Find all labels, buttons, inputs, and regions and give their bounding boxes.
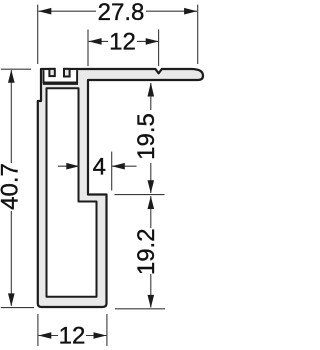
extension line 40.7 bottom — [1, 307, 34, 309]
dimension 12 bottom arrow left — [38, 332, 51, 339]
top slot cavity outline — [44, 70, 78, 82]
extension line 19.5/19.2 junction — [115, 194, 165, 196]
dimension 27.8 line right — [146, 10, 197, 12]
dimension 19.5 arrow up — [148, 83, 155, 97]
dimension 4 arrow left — [66, 163, 79, 170]
profile body outline — [38, 69, 203, 307]
extension line 12 bottom right — [106, 314, 108, 346]
dimension 19.2 line upper — [150, 196, 152, 228]
svg-text:40.7: 40.7 — [0, 163, 24, 210]
extension line 27.8 left — [37, 5, 39, 64]
dimension 12 bottom line left — [38, 335, 58, 337]
dimension 19.2 arrow up — [148, 196, 155, 209]
dimension 12 top arrow right — [146, 38, 159, 45]
extension line 12 bottom left — [37, 314, 39, 346]
dimension 40.7 line lower — [10, 211, 12, 306]
dimension 27.8 arrow right — [184, 8, 197, 15]
svg-text:12: 12 — [59, 322, 86, 349]
top slot opening — [55, 66, 63, 75]
extension line 27.8 right — [197, 5, 199, 64]
dimension 19.5 line upper — [150, 83, 152, 110]
dimension 12 bottom arrow right — [94, 332, 107, 339]
dimension 19.2 arrow down — [148, 295, 155, 308]
top slot right lip — [64, 69, 70, 77]
extension line 40.7 top — [1, 68, 31, 70]
dimension 4 line left — [58, 165, 79, 167]
dimension 12 bottom line right — [86, 335, 107, 337]
dimension 12 top arrow left — [89, 38, 102, 45]
top slot left lip — [49, 69, 54, 76]
svg-text:4: 4 — [93, 153, 106, 180]
svg-text:19.5: 19.5 — [133, 113, 160, 160]
extension line 19.2 bottom — [115, 308, 165, 310]
dimension 40.7 arrow down — [8, 293, 15, 306]
extension line 4 — [111, 152, 113, 191]
extension line 12 top right — [158, 30, 160, 67]
dimension 4 line right — [112, 165, 137, 167]
dimension 4 arrow right — [112, 163, 125, 170]
dimension 19.5 arrow down — [148, 180, 155, 193]
dimension 19.5 line lower — [150, 163, 152, 193]
dimension 12 top line right — [137, 40, 158, 42]
top slot cavity — [43, 70, 78, 82]
top slot bottom wall line — [43, 83, 78, 85]
dimension 40.7 line upper — [10, 70, 12, 163]
dimension 27.8 line left — [38, 10, 96, 12]
profile hollow interior — [47, 88, 97, 296]
svg-text:19.2: 19.2 — [133, 228, 160, 275]
dimension 40.7 arrow up — [8, 70, 15, 83]
svg-text:27.8: 27.8 — [98, 0, 145, 26]
extension line 12 top left — [87, 30, 89, 67]
dimension 12 top line left — [89, 40, 108, 42]
dimension 27.8 arrow left — [38, 8, 51, 15]
dimension 19.2 line lower — [150, 274, 152, 308]
svg-text:12: 12 — [109, 28, 136, 55]
